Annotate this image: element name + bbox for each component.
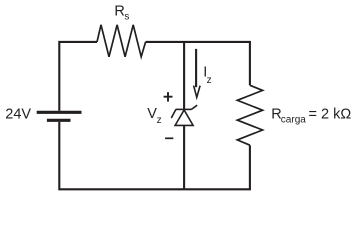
zener bar left tail <box>171 109 176 118</box>
wire zener branch upper <box>183 42 185 110</box>
svg-text:24V: 24V <box>5 107 31 123</box>
plus sign <box>164 92 173 102</box>
svg-text:R: R <box>114 3 124 19</box>
wire bottom-right segment with bottom-right corner <box>184 145 250 189</box>
wire top-middle to top-right corner <box>146 42 250 85</box>
zener diode Vz cathode bar <box>176 108 192 110</box>
svg-text:= 2 kΩ: = 2 kΩ <box>309 107 352 123</box>
zener diode triangle <box>175 110 193 125</box>
zener bar right tail <box>191 105 197 109</box>
wire left lower segment with bottom-left corner <box>59 122 184 189</box>
svg-text:s: s <box>124 12 129 23</box>
svg-text:z: z <box>157 115 162 126</box>
resistor Rs <box>97 25 146 57</box>
minus sign <box>165 137 173 139</box>
current arrow Iz line <box>195 49 197 87</box>
wire zener branch lower <box>183 125 185 189</box>
svg-text:carga: carga <box>281 114 306 125</box>
resistor Rcarga <box>237 85 262 145</box>
wire top-left segment with left corner <box>59 42 97 111</box>
svg-text:z: z <box>207 75 212 86</box>
battery 24V top plate <box>37 111 82 114</box>
battery 24V bottom plate <box>47 119 71 122</box>
current arrow Iz open head <box>194 86 201 98</box>
